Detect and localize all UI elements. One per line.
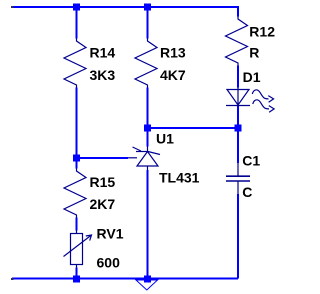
svg-text:R14: R14 [90,44,116,60]
svg-text:RV1: RV1 [97,225,124,241]
svg-text:R12: R12 [249,24,275,40]
svg-text:D1: D1 [243,69,261,85]
svg-text:R: R [249,45,259,61]
svg-text:TL431: TL431 [159,170,200,186]
svg-text:U1: U1 [156,130,174,146]
svg-text:R13: R13 [160,44,186,60]
svg-text:R15: R15 [90,174,116,190]
svg-text:C1: C1 [242,152,260,168]
svg-text:C: C [242,184,252,200]
svg-text:2K7: 2K7 [90,196,116,212]
svg-text:3K3: 3K3 [90,67,116,83]
svg-text:4K7: 4K7 [160,67,186,83]
svg-text:600: 600 [97,255,121,271]
